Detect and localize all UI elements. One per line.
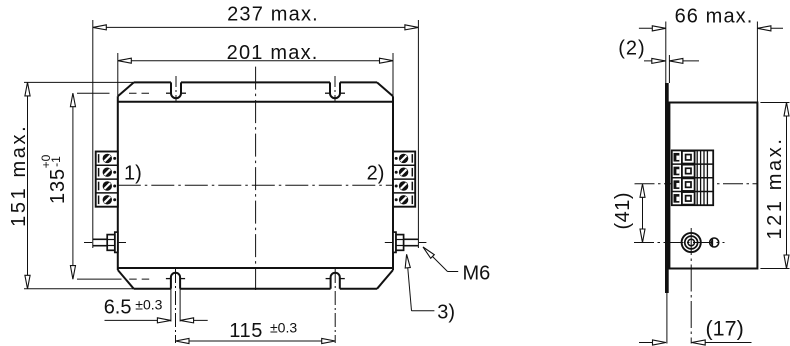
M6 stud right (front view) xyxy=(385,232,427,252)
svg-text:121 max.: 121 max. xyxy=(764,136,786,239)
svg-text:201 max.: 201 max. xyxy=(227,42,319,64)
mounting flange top edge xyxy=(118,82,393,96)
label M6 with leader arrow xyxy=(423,247,490,285)
dimension (17) xyxy=(639,316,752,345)
dimension 121 max. xyxy=(760,103,789,269)
svg-text:1): 1) xyxy=(124,163,142,185)
svg-text:-1: -1 xyxy=(49,156,63,167)
dimension 115 ±0.3 xyxy=(176,320,336,344)
bottom mounting slot left xyxy=(166,269,185,343)
label 1) xyxy=(124,163,142,185)
label 3) with leader arrow xyxy=(405,254,455,323)
dimension 135 +0 -1 xyxy=(39,93,150,279)
body outline (side view) xyxy=(669,103,757,269)
svg-text:115: 115 xyxy=(229,320,263,342)
top mounting slot left xyxy=(166,76,186,101)
top mounting slot right xyxy=(325,76,345,101)
side view horizontal center line xyxy=(635,183,758,185)
svg-text:±0.3: ±0.3 xyxy=(270,320,297,336)
svg-text:135: 135 xyxy=(47,168,69,204)
dimension 6.5 ±0.3 xyxy=(104,296,208,323)
svg-text:151 max.: 151 max. xyxy=(8,124,30,227)
dimension 201 max. xyxy=(118,42,393,96)
terminal block (side view) xyxy=(672,150,713,205)
mounting flange (side view) xyxy=(665,83,669,344)
mounting flange bottom edge xyxy=(118,270,393,289)
svg-text:3): 3) xyxy=(437,302,455,324)
M6 stud end view xyxy=(682,233,701,252)
dimension (2) xyxy=(618,37,699,83)
stud center lines (side view) xyxy=(634,228,725,344)
svg-text:2): 2) xyxy=(367,163,385,185)
dimension 151 max. xyxy=(8,82,134,288)
svg-text:66 max.: 66 max. xyxy=(675,5,754,27)
dimension 66 max. xyxy=(639,5,783,102)
dimension (41) xyxy=(612,184,645,243)
svg-text:(17): (17) xyxy=(706,316,744,340)
bottom mounting slot right xyxy=(326,269,345,343)
body outline (front view) xyxy=(118,96,393,270)
screw head (side view) xyxy=(710,238,719,247)
terminal block right (front view) xyxy=(393,152,415,207)
terminal block left (front view) xyxy=(96,152,118,207)
horizontal center line (front view) xyxy=(118,184,393,186)
dimension 237 max. xyxy=(93,4,419,248)
svg-text:(2): (2) xyxy=(618,37,645,59)
M6 stud left (front view) xyxy=(84,232,126,252)
label 2) xyxy=(367,163,385,185)
svg-text:(41): (41) xyxy=(612,192,634,230)
svg-text:237 max.: 237 max. xyxy=(227,4,319,26)
vertical center line (front view) xyxy=(255,67,257,290)
svg-text:M6: M6 xyxy=(463,263,491,285)
svg-text:6.5: 6.5 xyxy=(104,296,132,318)
svg-text:±0.3: ±0.3 xyxy=(135,297,162,313)
